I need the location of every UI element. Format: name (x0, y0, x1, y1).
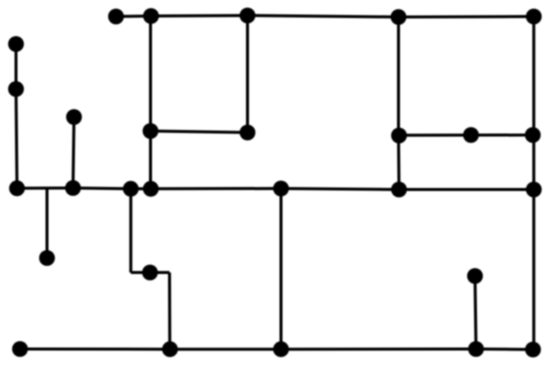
node K (393, 129, 406, 142)
wire F-G left vertical (15, 44, 18, 89)
wire E-M right vertical upper (532, 17, 535, 136)
wire R-S middle horizontal (281, 189, 399, 190)
node O (67, 182, 80, 195)
wire corner horizontal through V (131, 271, 170, 274)
node Q (144, 182, 157, 195)
wire W-AA vertical (475, 276, 476, 349)
node D (392, 11, 405, 24)
node M (526, 129, 539, 142)
wire P down vertical (129, 189, 132, 273)
wire B-C top horizontal (151, 14, 248, 18)
wire I-J horizontal (151, 131, 248, 133)
wire G-N left vertical (16, 89, 17, 188)
wire AA-AB bottom horizontal (476, 348, 533, 352)
node W (469, 270, 482, 283)
wire R-Z vertical (280, 189, 283, 350)
wire stub to U (46, 188, 49, 258)
wire corner down to Y (168, 273, 171, 350)
node L (465, 129, 478, 142)
node H (68, 111, 81, 124)
wire A-B top-left short horizontal (116, 15, 151, 19)
wire I-Q vertical (149, 131, 152, 189)
wire Z-AA bottom horizontal (281, 348, 476, 351)
wire D-E top horizontal (399, 15, 534, 19)
wire H-O vertical (73, 117, 74, 188)
node Z (275, 343, 288, 356)
node E (527, 10, 540, 23)
node S (393, 183, 406, 196)
node I (144, 125, 157, 138)
node J (241, 126, 254, 139)
node N (11, 182, 24, 195)
node Y (164, 343, 177, 356)
node V (144, 266, 157, 279)
node T (527, 183, 540, 196)
wire Q-R middle horizontal (151, 187, 282, 190)
node AA (470, 343, 483, 356)
node AB (527, 343, 540, 356)
node G (10, 83, 23, 96)
wire M-T right vertical (532, 135, 535, 190)
node X (14, 343, 27, 356)
wire N-O middle horizontal (17, 187, 73, 190)
wire Y-Z bottom horizontal (170, 348, 281, 351)
wire B-I vertical (149, 16, 152, 131)
wire P-Q middle horizontal (131, 187, 151, 190)
node P (124, 182, 137, 195)
node R (275, 182, 288, 195)
wire X-Y bottom horizontal (20, 348, 170, 351)
wire K-L-M horizontal (399, 134, 534, 137)
wire K-S vertical (397, 135, 401, 189)
wire C-D top horizontal (248, 16, 399, 18)
wire C-J vertical (246, 16, 249, 133)
node F (10, 38, 23, 51)
wire T-AB right vertical lower (532, 190, 535, 350)
node A (110, 10, 123, 23)
node U (41, 252, 54, 265)
wire D-K vertical (397, 17, 400, 135)
node B (145, 10, 158, 23)
wire O-P middle horizontal (73, 187, 131, 191)
node C (241, 9, 254, 22)
wire S-T middle horizontal (399, 188, 534, 191)
